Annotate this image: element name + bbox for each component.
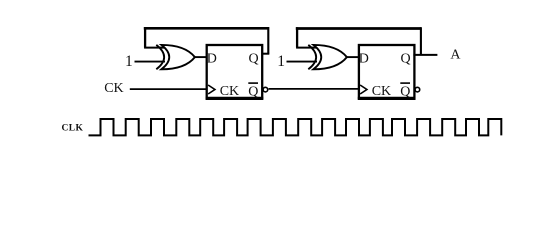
wire FF2 Q output vertical up to feedback: [420, 27, 422, 55]
svg-text:1: 1: [277, 53, 285, 70]
svg-text:CK: CK: [104, 81, 123, 96]
svg-text:Q: Q: [248, 85, 258, 100]
wire feedback left vertical into XOR1 top input: [144, 27, 146, 48]
svg-text:Q: Q: [249, 52, 259, 67]
svg-text:Q: Q: [401, 52, 411, 67]
wire XOR2 lower input from 1: [287, 61, 318, 63]
wire FF1 box thick bottom edge: [206, 97, 264, 100]
svg-text:D: D: [359, 52, 369, 67]
flip-flop FF1 box: [207, 45, 263, 98]
XOR gate U1 body: [161, 45, 195, 69]
clock triangle of FF2: [360, 85, 367, 94]
wire CK to FF1 clock: [130, 88, 207, 90]
svg-text:D: D: [207, 52, 217, 67]
wire XOR2 output to FF2 D input: [347, 56, 360, 58]
wire feedback left vertical into XOR2 top input: [296, 27, 298, 47]
XOR gate U2 input double-arc: [308, 45, 316, 69]
wire feedback top horizontal FF1 Q to XOR1: [144, 27, 269, 30]
wire feedback top horizontal FF2 Q to XOR2: [296, 27, 421, 30]
wire XOR1 top input horizontal: [144, 47, 165, 49]
wire XOR1 output to FF1 D input: [195, 56, 208, 58]
svg-text:1: 1: [125, 53, 133, 70]
inversion bubble on FF2 Qbar output: [415, 87, 420, 92]
wire FF2 box thick bottom edge: [358, 97, 416, 100]
wire FF1 Q output vertical up to feedback: [267, 27, 269, 54]
svg-text:CK: CK: [220, 84, 239, 99]
XOR gate U1 input double-arc: [156, 45, 164, 69]
clock waveform CLK: [89, 119, 502, 135]
flip-flop FF2 box: [359, 45, 415, 98]
svg-text:A: A: [450, 47, 461, 62]
svg-text:CLK: CLK: [62, 124, 84, 134]
wire XOR2 top input horizontal: [296, 47, 317, 49]
XOR gate U2 body: [313, 45, 347, 69]
inversion bubble on FF1 Qbar output: [263, 87, 268, 92]
wire XOR1 lower input from 1: [135, 61, 166, 63]
wire FF1 Qbar to FF2 clock: [269, 88, 360, 90]
wire FF2 Q output horizontal to A: [413, 54, 437, 56]
svg-text:CK: CK: [372, 84, 391, 99]
overline of FF2 Qbar: [400, 82, 410, 84]
clock triangle of FF1: [208, 85, 215, 94]
overline of FF1 Qbar: [248, 82, 258, 84]
svg-text:Q: Q: [400, 85, 410, 100]
wire FF1 Q output horizontal: [261, 53, 269, 55]
